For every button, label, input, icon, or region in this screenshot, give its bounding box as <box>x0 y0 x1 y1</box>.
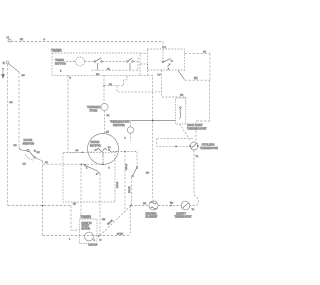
wire bottom run <box>43 235 131 237</box>
wire BK horizontal run <box>185 79 210 81</box>
svg-text:HEATER: HEATER <box>113 123 126 127</box>
svg-text:MOTOR: MOTOR <box>90 143 102 147</box>
wire down from door switch <box>42 161 44 236</box>
svg-text:#5 BK: #5 BK <box>117 233 123 235</box>
centrifugal switch <box>84 164 100 174</box>
heating element E1 <box>149 201 158 210</box>
cycling thermostat T1 <box>190 142 199 150</box>
wire N diagonal <box>9 64 20 72</box>
svg-text:BU 36: BU 36 <box>126 163 128 170</box>
wire centrifugal down <box>99 174 101 236</box>
push-to-start switch box <box>148 49 185 70</box>
svg-text:START: START <box>82 225 90 228</box>
wire L1 top run <box>11 41 163 43</box>
wire heater feed <box>131 205 149 207</box>
svg-text:TIMER: TIMER <box>51 49 62 53</box>
broken belt switch <box>132 167 138 177</box>
wire start box to right drop <box>185 52 211 54</box>
svg-text:PUSH TO: PUSH TO <box>82 223 92 225</box>
svg-text:PU: PU <box>158 75 161 77</box>
svg-text:M: M <box>100 240 102 242</box>
svg-text:THERMOSTAT: THERMOSTAT <box>175 216 192 219</box>
wire solid run to high limit box <box>131 120 176 122</box>
node junction x125 <box>124 151 125 152</box>
wire right vertical upper <box>209 53 211 80</box>
ground symbol <box>2 69 5 79</box>
svg-text:RD: RD <box>102 219 106 221</box>
svg-text:BU: BU <box>146 173 149 175</box>
wire belt switch drop <box>136 152 138 167</box>
svg-text:TIMER: TIMER <box>81 215 92 219</box>
svg-text:BU: BU <box>10 102 13 104</box>
svg-text:BU: BU <box>22 75 25 77</box>
node heater junction <box>130 205 132 207</box>
svg-text:ELEMENT: ELEMENT <box>146 216 158 219</box>
door switch S3 <box>19 147 36 160</box>
terminal N <box>6 61 9 64</box>
wire start box bottom to high limit <box>162 70 186 103</box>
svg-text:RD: RD <box>143 203 147 205</box>
wire right vertical down to bottom run <box>129 206 131 236</box>
wire belt switch down <box>131 177 133 206</box>
svg-text:N: N <box>3 61 5 65</box>
wire into start contact <box>162 49 164 61</box>
timer box TIMER (top) <box>52 53 140 75</box>
wire timer drop to fuse <box>103 75 105 103</box>
svg-text:THERMOSTAT: THERMOSTAT <box>187 126 207 130</box>
wire cycling left feed <box>157 138 193 140</box>
svg-text:BU: BU <box>73 204 76 206</box>
svg-text:T-MOTOR: T-MOTOR <box>88 244 98 246</box>
wire N bottom corner run <box>8 205 71 207</box>
high limit switch <box>180 107 182 119</box>
terminal L1 <box>8 39 11 42</box>
node junction x152 <box>152 120 154 122</box>
svg-text:BU RD: BU RD <box>129 186 131 193</box>
wire corner down to timer2 <box>71 206 80 231</box>
thermal fuse F1 <box>101 103 108 110</box>
wire diagonal timer2 to heater junction <box>100 206 131 236</box>
svg-text:FUSE: FUSE <box>90 108 98 112</box>
svg-text:1C: 1C <box>76 150 79 152</box>
wire contact1 to contact2 <box>102 61 126 63</box>
wire diagonal start box to BK run <box>178 71 185 80</box>
wire door switch to motor <box>43 163 103 165</box>
node junction 43/205 <box>42 205 44 207</box>
node junction RD <box>170 205 172 207</box>
wire high limit to cycling thermostat <box>180 124 191 140</box>
start switch contact <box>162 59 172 67</box>
svg-text:CO: CO <box>23 164 27 166</box>
svg-text:GA: GA <box>180 94 184 97</box>
svg-text:MOTOR: MOTOR <box>55 62 67 66</box>
node motor bottom <box>102 163 104 165</box>
wire timer branch horizontal <box>104 75 127 85</box>
node junction cycling feed <box>175 146 177 148</box>
wire N left vertical <box>7 64 9 205</box>
motor box <box>63 152 115 202</box>
wire right vertical to cycling thermostat <box>196 80 210 142</box>
node junction at drop <box>162 47 163 48</box>
wire blob to motor circle <box>66 61 76 63</box>
timer contact S2 <box>127 58 134 70</box>
wire RD vertical to door switch <box>18 72 20 147</box>
wire drop to start switch box <box>162 42 164 50</box>
wire contact2 to rail end <box>133 61 138 63</box>
wire timer drop B (x68) <box>67 75 69 152</box>
svg-text:BK: BK <box>194 76 198 80</box>
svg-text:1C: 1C <box>45 162 48 164</box>
wire fuse to motor <box>104 111 106 134</box>
wire element to safety tstat <box>158 205 181 207</box>
wire thermostat down to heater line <box>190 150 199 206</box>
svg-text:BK 5A: BK 5A <box>116 181 119 188</box>
timer lower rail <box>92 69 138 71</box>
wire jog to start box <box>140 64 148 75</box>
wire timer2 feed vertical x81 <box>80 164 82 219</box>
svg-text:MOTOR: MOTOR <box>82 228 91 230</box>
wire tick right rail <box>137 58 139 71</box>
node motor left dot <box>82 152 83 153</box>
wire heater top stub <box>130 121 132 127</box>
timer motor M3 <box>85 232 94 241</box>
wire door switch output corner <box>36 158 43 161</box>
wire heater bottom stub <box>130 133 132 141</box>
thermostat heater R1 <box>127 127 133 133</box>
svg-text:1H: 1H <box>106 132 109 134</box>
timer contact S1 <box>94 58 102 70</box>
svg-text:RD: RD <box>14 145 18 147</box>
svg-text:BU: BU <box>96 74 99 76</box>
wire motor right run <box>117 151 137 153</box>
svg-text:THERMOSTAT: THERMOSTAT <box>200 146 218 150</box>
svg-text:NC: NC <box>37 152 41 154</box>
wire branch down right <box>117 86 162 92</box>
high limit thermostat box <box>176 98 186 124</box>
timer box TIMER (bottom) <box>80 219 98 244</box>
node junction D1 branch <box>103 85 104 86</box>
wire start box down right leg <box>140 75 154 201</box>
wire cycling left leg <box>157 139 190 147</box>
node junction x81 <box>81 164 82 165</box>
wire timer top to start box <box>140 52 148 54</box>
node M junction <box>98 235 100 237</box>
svg-text:RD: RD <box>170 203 174 205</box>
timer motor M1 <box>76 57 85 66</box>
svg-text:PU: PU <box>203 52 206 54</box>
svg-text:SWITCH: SWITCH <box>23 141 34 145</box>
safety thermostat T2 <box>181 201 190 210</box>
wire x125 vertical to diagonal <box>124 152 126 213</box>
motor winding <box>88 149 117 164</box>
drive motor M2 <box>88 134 119 165</box>
wire motor left run <box>63 151 88 153</box>
wire motor to contact1 <box>85 61 95 63</box>
